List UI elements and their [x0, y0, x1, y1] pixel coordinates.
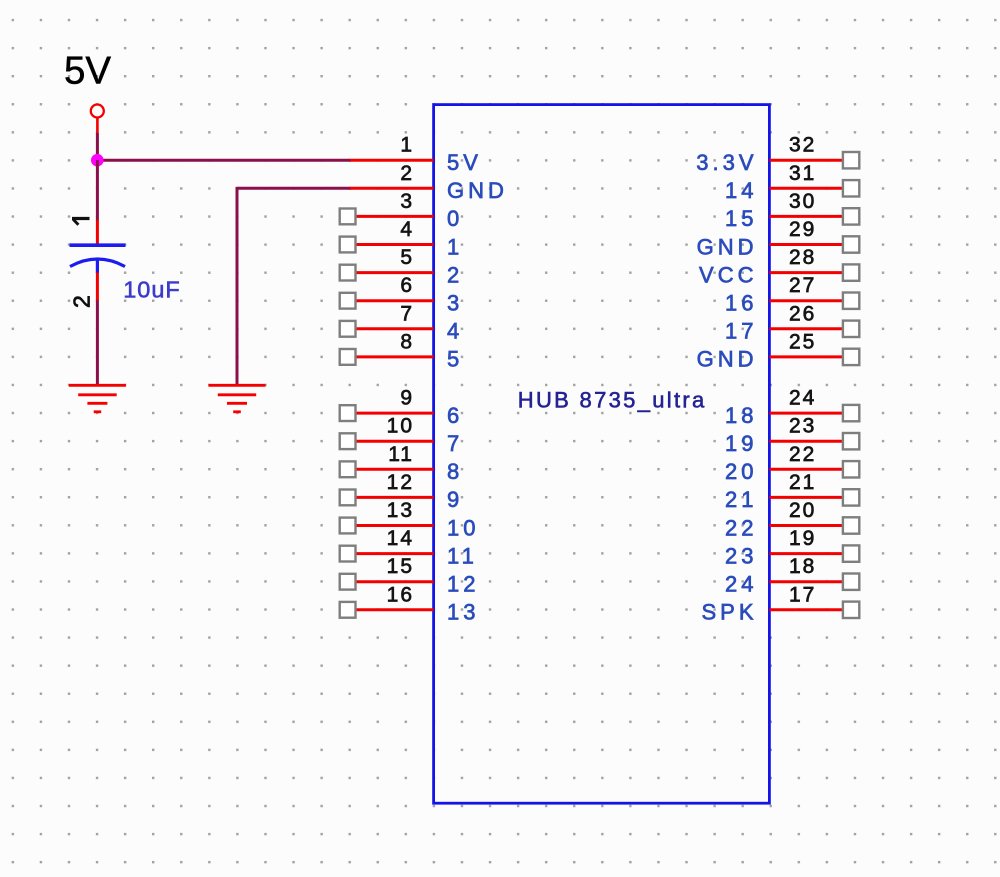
- svg-text:24: 24: [725, 572, 757, 597]
- wire: GND horizontal to pin 2: [237, 187, 351, 190]
- svg-text:16: 16: [725, 291, 757, 316]
- pin 24 right (18): [725, 387, 859, 428]
- wire: capacitor pin 2 to ground symbol: [96, 300, 99, 386]
- pin 9 left (6): [340, 387, 464, 428]
- wire: junction down to capacitor pin 1: [96, 160, 99, 221]
- pin 6 left (3): [340, 274, 464, 315]
- svg-text:8: 8: [400, 330, 414, 353]
- pin 18 right (24): [725, 555, 859, 596]
- pin 26 right (17): [725, 302, 859, 343]
- pin 4 left (1): [340, 218, 464, 259]
- capacitor C1 10uF: [70, 220, 126, 301]
- pin 2 left (GND): [350, 162, 508, 203]
- svg-text:12: 12: [387, 471, 414, 494]
- pin 13 left (10): [340, 499, 480, 540]
- svg-text:19: 19: [789, 527, 816, 550]
- pin 29 right (GND): [697, 218, 860, 259]
- svg-text:23: 23: [789, 415, 816, 438]
- svg-text:25: 25: [789, 330, 816, 353]
- pin 14 left (11): [340, 527, 478, 568]
- svg-text:5V: 5V: [447, 150, 482, 175]
- pin 32 right (3.3V): [696, 134, 859, 175]
- svg-text:14: 14: [387, 527, 414, 550]
- svg-text:GND: GND: [447, 178, 508, 203]
- pin 27 right (16): [725, 274, 859, 315]
- svg-text:11: 11: [388, 443, 414, 466]
- pin 23 right (19): [725, 415, 859, 456]
- svg-text:31: 31: [789, 162, 816, 185]
- pin 25 right (GND): [697, 330, 860, 371]
- pin 15 left (12): [340, 555, 480, 596]
- wire: 5V horizontal to pin 1: [96, 159, 351, 162]
- svg-text:3.3V: 3.3V: [696, 150, 757, 175]
- svg-text:20: 20: [789, 499, 816, 522]
- svg-text:0: 0: [447, 206, 463, 231]
- svg-text:20: 20: [725, 459, 757, 484]
- svg-text:17: 17: [725, 319, 757, 344]
- pin 17 right (SPK): [701, 583, 859, 624]
- pin 7 left (4): [340, 302, 464, 343]
- junction node (5V net): [91, 154, 104, 167]
- svg-text:2: 2: [69, 295, 95, 308]
- svg-text:29: 29: [789, 218, 816, 241]
- svg-text:2: 2: [447, 262, 463, 287]
- svg-text:17: 17: [789, 583, 816, 606]
- svg-text:7: 7: [447, 431, 463, 456]
- svg-text:3: 3: [447, 291, 463, 316]
- svg-text:9: 9: [400, 387, 414, 410]
- svg-text:18: 18: [789, 555, 816, 578]
- ground symbol (capacitor): [69, 385, 126, 412]
- svg-text:10uF: 10uF: [123, 277, 181, 303]
- pin 12 left (9): [340, 471, 464, 512]
- svg-text:11: 11: [447, 543, 478, 568]
- svg-text:6: 6: [447, 403, 463, 428]
- svg-text:24: 24: [789, 387, 816, 410]
- svg-text:13: 13: [447, 600, 479, 625]
- svg-text:7: 7: [400, 302, 414, 325]
- svg-text:HUB 8735_ultra: HUB 8735_ultra: [518, 388, 707, 413]
- svg-text:SPK: SPK: [701, 600, 757, 625]
- svg-text:GND: GND: [697, 347, 758, 372]
- wire: power symbol to junction: [96, 133, 99, 161]
- svg-text:5V: 5V: [64, 50, 111, 93]
- svg-text:22: 22: [789, 443, 816, 466]
- svg-text:3: 3: [400, 190, 414, 213]
- svg-text:15: 15: [725, 206, 757, 231]
- svg-text:15: 15: [387, 555, 414, 578]
- svg-text:18: 18: [725, 403, 757, 428]
- IC U1 HUB 8735_ultra body: [434, 105, 770, 804]
- pin 22 right (20): [725, 443, 859, 484]
- svg-text:5: 5: [400, 246, 414, 269]
- svg-text:28: 28: [789, 246, 816, 269]
- svg-text:6: 6: [400, 274, 414, 297]
- svg-text:10: 10: [387, 415, 414, 438]
- svg-text:14: 14: [725, 178, 757, 203]
- pin 8 left (5): [340, 330, 464, 371]
- svg-text:5: 5: [447, 347, 463, 372]
- svg-text:1: 1: [447, 234, 463, 259]
- power symbol 5V circle: [91, 105, 104, 134]
- capacitor pin label 1: [72, 219, 90, 225]
- svg-text:10: 10: [447, 515, 479, 540]
- svg-text:27: 27: [789, 274, 816, 297]
- svg-text:26: 26: [789, 302, 816, 325]
- pin 30 right (15): [725, 190, 859, 231]
- svg-text:8: 8: [447, 459, 463, 484]
- svg-text:4: 4: [400, 218, 414, 241]
- svg-text:4: 4: [447, 319, 463, 344]
- svg-text:21: 21: [725, 487, 757, 512]
- svg-text:GND: GND: [697, 234, 758, 259]
- svg-text:12: 12: [447, 572, 479, 597]
- svg-text:32: 32: [789, 134, 816, 157]
- svg-text:30: 30: [789, 190, 816, 213]
- ground symbol (IC GND): [209, 385, 266, 412]
- pin 5 left (2): [340, 246, 464, 287]
- svg-text:23: 23: [725, 543, 757, 568]
- pin 28 right (VCC): [699, 246, 859, 287]
- wire: GND vertical to ground symbol: [236, 187, 239, 386]
- svg-text:22: 22: [725, 515, 757, 540]
- svg-text:9: 9: [447, 487, 463, 512]
- pin 31 right (14): [725, 162, 859, 203]
- svg-text:16: 16: [387, 583, 414, 606]
- svg-text:13: 13: [387, 499, 414, 522]
- svg-text:1: 1: [400, 134, 414, 157]
- pin 19 right (23): [725, 527, 859, 568]
- pin 3 left (0): [340, 190, 464, 231]
- svg-text:2: 2: [400, 162, 414, 185]
- pin 20 right (22): [725, 499, 859, 540]
- pin 10 left (7): [340, 415, 464, 456]
- pin 21 right (21): [725, 471, 859, 512]
- svg-text:19: 19: [725, 431, 757, 456]
- svg-text:21: 21: [789, 471, 816, 494]
- pin 16 left (13): [340, 583, 480, 624]
- pin 11 left (8): [340, 443, 464, 484]
- svg-text:VCC: VCC: [699, 262, 757, 287]
- pin 1 left (5V): [350, 134, 482, 175]
